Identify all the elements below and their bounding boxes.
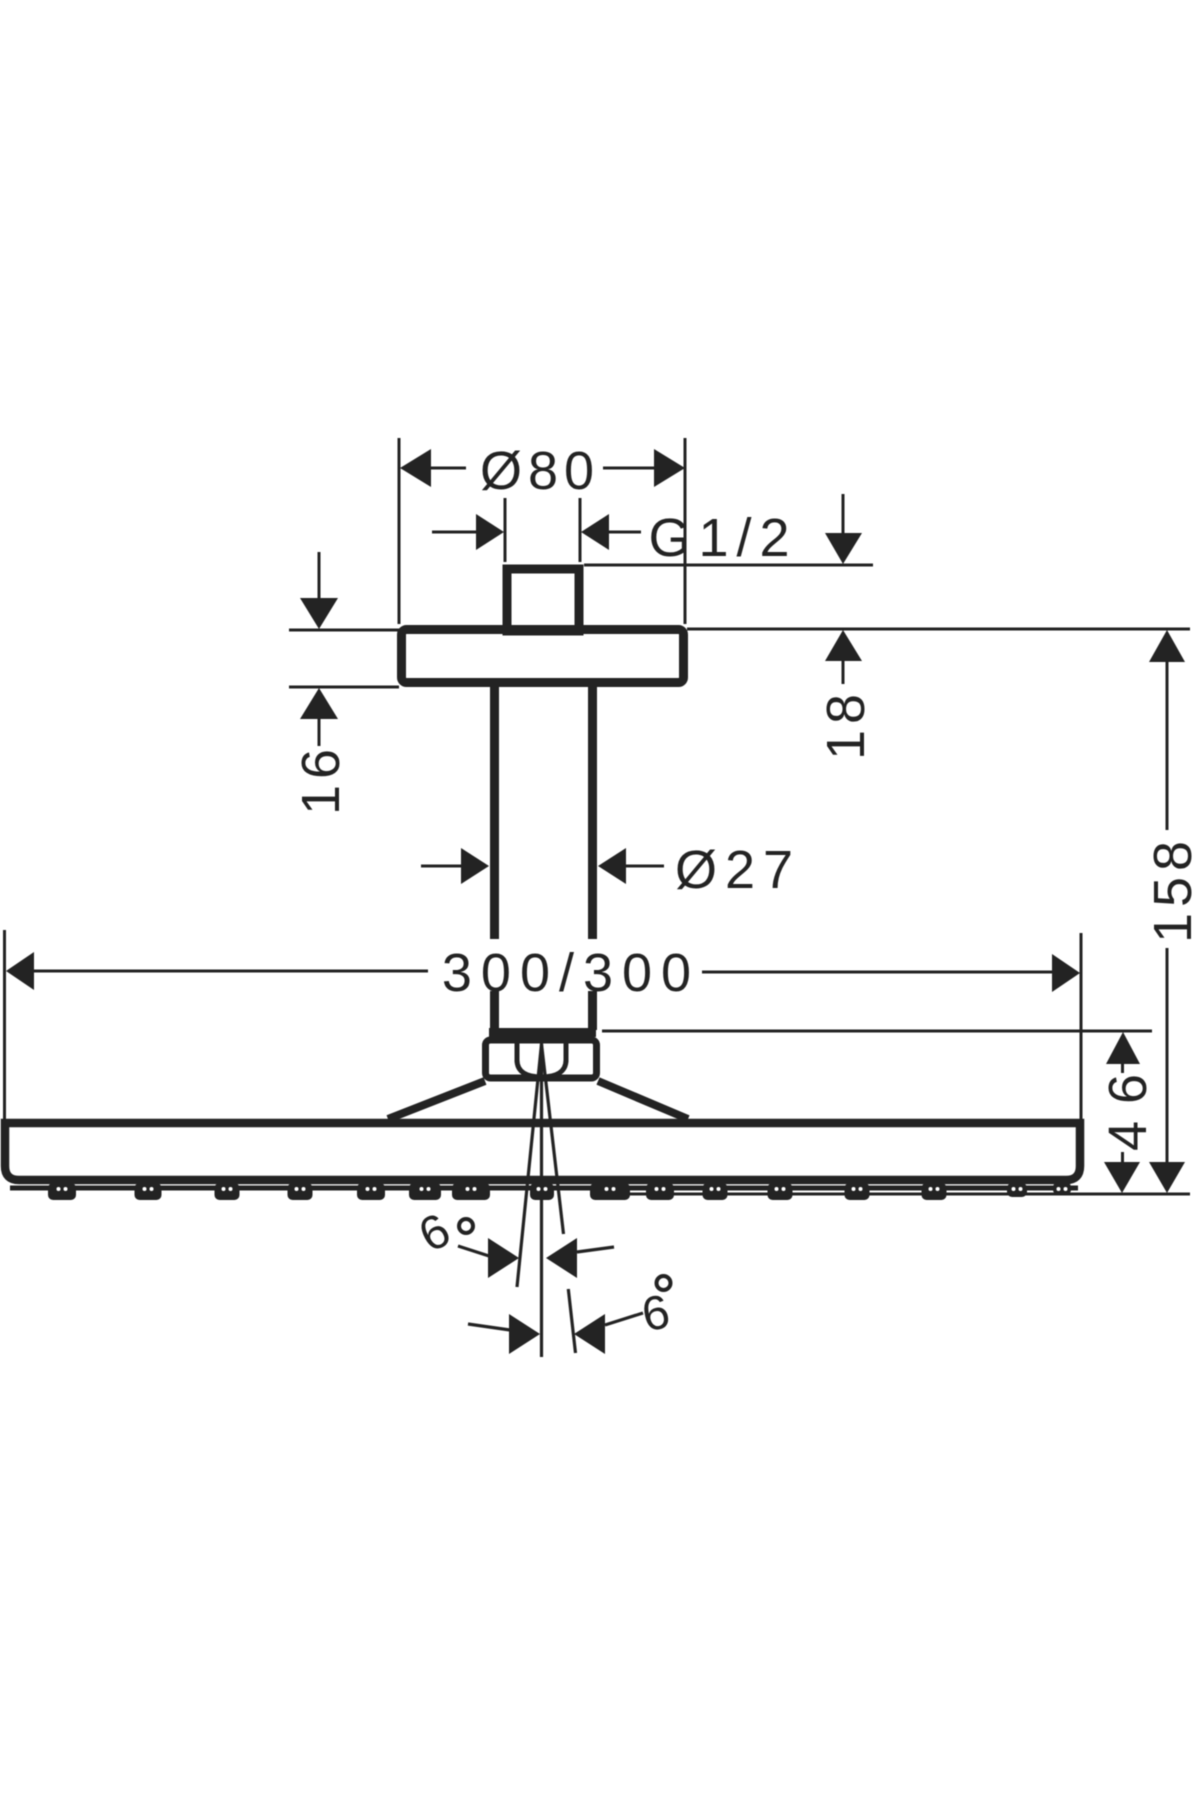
svg-text:6: 6: [410, 1204, 458, 1263]
svg-text:6: 6: [637, 1285, 674, 1342]
svg-text:46: 46: [1098, 1057, 1158, 1151]
svg-text:158: 158: [1143, 835, 1200, 943]
svg-text:G1/2: G1/2: [648, 508, 797, 568]
svg-text:Ø80: Ø80: [480, 441, 600, 501]
svg-text:18: 18: [816, 688, 876, 760]
svg-text:Ø27: Ø27: [675, 840, 801, 900]
svg-text:16: 16: [291, 743, 351, 815]
svg-text:300/300: 300/300: [442, 943, 700, 1003]
